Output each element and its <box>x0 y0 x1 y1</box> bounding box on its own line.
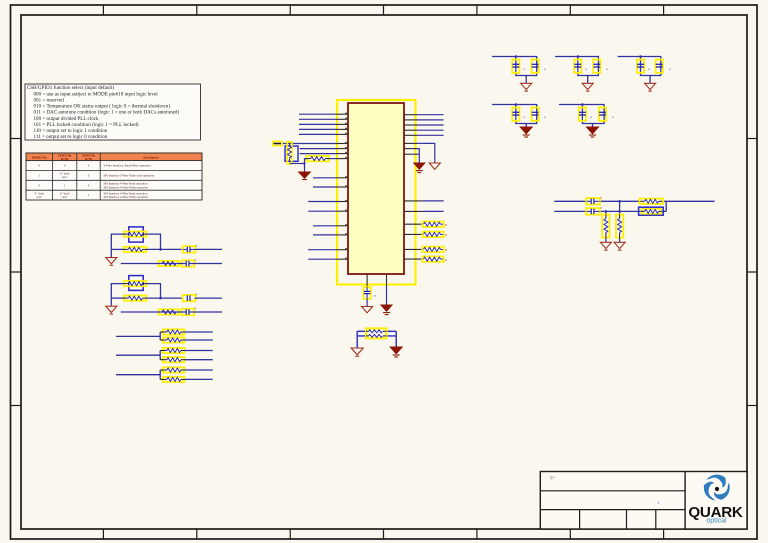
junction dot A <box>159 248 162 251</box>
wire pair1 input <box>116 332 160 340</box>
svg-text:SPI Interface 4-Wire Write ope: SPI Interface 4-Wire Write operation <box>104 195 149 199</box>
svg-text:010 = Temperature OK status ou: 010 = Temperature OK status output ( log… <box>34 103 171 110</box>
resistor R12 (lower B) <box>158 309 178 314</box>
ground GND15 (open) <box>600 242 611 250</box>
termination pair under U1: wires <box>357 331 396 347</box>
svg-text:111 = output set to logic 0 co: 111 = output set to logic 0 condition <box>34 134 108 140</box>
svg-text:Description: Description <box>143 156 159 160</box>
wire R13 out <box>184 331 212 333</box>
wire DGND right <box>416 149 420 163</box>
ground GND16 (open) <box>614 242 625 250</box>
svg-text:CSB/GPIO1 function select (inp: CSB/GPIO1 function select (input default… <box>27 84 114 91</box>
ground GND14 (filled with bars) <box>587 127 599 137</box>
capacitor C16 <box>586 195 603 204</box>
capacitor C7 <box>532 60 547 73</box>
wire main A out <box>195 248 222 250</box>
capacitor C12 <box>512 108 525 121</box>
svg-text:MODE Pin: MODE Pin <box>32 155 47 159</box>
wire net bottom <box>554 210 666 212</box>
decoupling group 4: wire <box>492 105 537 124</box>
resistor R16 <box>160 357 184 362</box>
resistor R15 <box>160 348 184 353</box>
capacitor C1 (under pin) <box>364 287 377 299</box>
junction dot <box>581 103 584 106</box>
wire main A mid <box>146 248 183 250</box>
wire R15 out <box>184 350 212 352</box>
wire right connector <box>665 201 667 211</box>
ground GND6 (open) <box>106 258 117 266</box>
junction dot B <box>159 297 162 300</box>
resistor R2 (horizontal) <box>307 156 338 161</box>
net label on CLK wire <box>273 141 283 145</box>
svg-text:care": care" <box>61 175 68 179</box>
svg-text:care": care" <box>36 195 43 199</box>
decoupling group 5: wire <box>559 105 604 124</box>
svg-text:SPI Interface 3-Wire Write-onl: SPI Interface 3-Wire Write-only operatio… <box>104 173 155 177</box>
capacitor C14 <box>579 108 592 121</box>
title cell divider c <box>655 510 657 529</box>
wire pair3 input <box>116 370 160 379</box>
wire stub to ground <box>525 124 527 127</box>
wire AGND loop right <box>416 143 435 162</box>
junction dot bottom 1 <box>605 210 608 213</box>
resistor R5 <box>422 247 447 253</box>
junction dot <box>515 55 518 58</box>
wire R18 out <box>184 378 212 380</box>
wire R21 to ground <box>619 238 621 242</box>
ground GND1 (filled) <box>299 172 311 180</box>
wire pin to DGND <box>416 153 420 155</box>
wire bus lower-left <box>308 178 337 259</box>
ground GND3 (filled with bars) <box>414 163 425 173</box>
capacitor C6 <box>512 60 525 73</box>
wire R1 bottom to junction <box>290 163 305 165</box>
svg-text:001 = reserved: 001 = reserved <box>34 98 65 104</box>
title row divider 1 <box>540 490 685 492</box>
wire right out2 <box>422 210 443 212</box>
highlight box around U1 <box>337 100 416 285</box>
svg-text:Q I: Q I <box>550 476 555 480</box>
wire stub to ground <box>525 76 527 83</box>
wire R17 out <box>184 369 212 371</box>
wire R2 left to ground junction <box>305 159 307 172</box>
junction dot <box>515 103 518 106</box>
wire net top <box>554 200 714 202</box>
resistor R19 (paralleled pair) <box>366 328 386 338</box>
capacitor C13 <box>532 108 547 121</box>
wire pin2 down <box>386 283 388 305</box>
title cell divider b <box>626 510 628 529</box>
svg-text:101 = PLL locked condition (lo: 101 = PLL locked condition (logic 1 = PL… <box>34 121 139 128</box>
junction dot <box>303 162 305 164</box>
ground GND13 (filled with bars) <box>520 127 532 137</box>
wire bus upper-left <box>282 114 337 153</box>
svg-text:R7[8]: R7[8] <box>61 157 68 161</box>
resistor R8 (main) <box>124 247 147 252</box>
resistor R4 <box>422 232 447 238</box>
svg-text:optical: optical <box>706 517 727 524</box>
capacitor C11 <box>656 60 671 73</box>
wire stub to ground <box>587 76 589 83</box>
svg-text:R: R <box>445 223 447 227</box>
svg-text:R7[9]: R7[9] <box>85 157 92 161</box>
ground GND9 (filled with bars) <box>390 347 402 357</box>
capacitor C5 <box>182 306 197 315</box>
junction dot top <box>618 200 621 203</box>
resistor R10 (top loop B) <box>124 281 147 286</box>
svg-text:R: R <box>445 258 447 262</box>
U1 bottom pin stubs <box>367 274 386 287</box>
wire right out1 <box>422 200 443 202</box>
resistor R1 (vertical, on CLK wire) <box>285 142 298 164</box>
resistor R14 <box>160 337 184 342</box>
wire stub R21 <box>619 201 621 214</box>
QUARK logo swirl <box>701 475 733 504</box>
decoupling group 1: wire <box>492 57 537 76</box>
svg-text:1: 1 <box>658 500 660 504</box>
svg-text:R: R <box>445 248 447 252</box>
resistor R3 <box>422 222 447 228</box>
wire top loop B <box>111 284 160 299</box>
wire stub R20 <box>605 211 607 214</box>
wire main B mid <box>146 297 183 299</box>
title block outline <box>540 472 747 530</box>
resistor R13 <box>160 329 184 334</box>
capacitor C17 <box>586 206 603 215</box>
junction dot <box>577 55 580 58</box>
title block divider logo cell <box>684 472 686 530</box>
wire to ground B <box>110 298 112 306</box>
resistor R9 (lower A) <box>158 261 178 266</box>
wire top loop A <box>111 234 160 249</box>
ground GND4 (open) <box>362 307 373 313</box>
svg-text:care": care" <box>61 195 68 199</box>
title cell divider a <box>579 510 581 529</box>
svg-text:R: R <box>445 233 447 237</box>
capacitor C3 <box>182 258 197 267</box>
capacitor C15 <box>599 108 614 121</box>
wire lower A <box>121 263 222 265</box>
decoupling group 2: wire <box>555 57 598 76</box>
resistor R7 (top loop) <box>124 232 147 237</box>
svg-text:100 = output divided PLL clock: 100 = output divided PLL clock <box>34 116 100 122</box>
wire stub to ground <box>592 124 594 127</box>
decoupling group 3: wire <box>618 57 661 76</box>
wire R16 out <box>184 359 212 361</box>
wire main B out <box>195 297 222 299</box>
ground GND11 (open) <box>582 83 593 91</box>
resistor R6 <box>422 256 447 262</box>
ground GND8 (open) <box>351 348 363 356</box>
capacitor C2 <box>183 244 198 253</box>
U1 right pin stubs <box>404 115 422 259</box>
resistor R18 <box>160 377 184 382</box>
capacitor C9 <box>593 60 608 73</box>
svg-text:SPI Interface 4-Wire Write ope: SPI Interface 4-Wire Write operation <box>104 185 149 189</box>
wire main A left <box>111 248 124 250</box>
wire main B left <box>111 297 124 299</box>
svg-text:011 = DAC autotune condition (: 011 = DAC autotune condition (logic 1 = … <box>34 109 180 116</box>
junction dot <box>639 55 642 58</box>
U1 left pin number marks <box>345 112 347 259</box>
mode table <box>26 153 202 200</box>
resistor R20 (vertical) <box>602 215 609 238</box>
oscillator Y2 outline box <box>129 276 143 291</box>
resistor R23 (bottom, boxed) <box>639 207 664 215</box>
capacitor C4 <box>183 292 198 301</box>
IC U1 body <box>348 103 404 274</box>
capacitor C8 <box>574 60 587 73</box>
ground GND10 (open) <box>521 83 532 91</box>
note box: CSB/GPIO1 function select <box>25 84 201 140</box>
wire to ground A <box>110 249 112 257</box>
ground GND5 (filled with bars) <box>381 305 392 315</box>
ground GND12 (open) <box>645 83 656 91</box>
capacitor C10 <box>637 60 650 73</box>
wire stub to ground <box>649 76 651 83</box>
resistor R17 <box>160 367 184 372</box>
title row divider 2 <box>540 509 685 511</box>
wire C1 to ground <box>366 299 368 306</box>
resistor R11 (main B) <box>124 296 147 301</box>
wire pair2 input <box>116 351 160 360</box>
oscillator Y1 outline box <box>129 227 143 242</box>
junction dot bottom 2 <box>618 210 621 213</box>
resistor R22 (top, series) <box>640 199 664 204</box>
wire lower B <box>121 311 222 313</box>
wire bus upper-right <box>416 115 444 136</box>
wire R14 out <box>184 339 212 341</box>
ground GND2 (open) <box>429 163 440 169</box>
ground GND7 (open) <box>106 306 117 314</box>
svg-text:110 = output set to logic 1 co: 110 = output set to logic 1 condition <box>34 128 108 134</box>
resistor R21 (vertical) <box>616 215 623 238</box>
U1 left pin stubs <box>337 114 348 259</box>
svg-text:000 = use as input subject to: 000 = use as input subject to MODE pin#1… <box>34 91 159 97</box>
wire R20 to ground <box>605 238 607 242</box>
